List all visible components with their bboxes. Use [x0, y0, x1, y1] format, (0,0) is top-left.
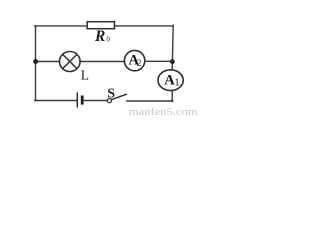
wire: bottom side, left corner to battery — [35, 100, 77, 102]
wire: top side, resistor to right corner — [115, 25, 174, 27]
svg-text:2: 2 — [137, 58, 142, 68]
svg-text:1: 1 — [174, 77, 180, 89]
wire: top side, corner to resistor — [35, 25, 87, 27]
ammeter A1 — [158, 70, 183, 91]
wire: battery to switch — [84, 100, 108, 102]
wire: middle branch, A2 to right wire — [145, 60, 173, 62]
wire: middle branch, lamp to ammeter A2 — [80, 61, 125, 63]
wire: middle branch, left wire to lamp — [36, 61, 60, 63]
wire: bottom side, switch to right corner — [127, 100, 173, 102]
resistor R0 — [87, 22, 114, 29]
wire: right side upper vertical — [172, 25, 173, 70]
lamp L cross stroke 2 — [63, 54, 77, 68]
battery: long plate — [76, 93, 78, 107]
wire: left side vertical — [35, 26, 37, 101]
lamp L — [60, 52, 81, 72]
node: junction on left wire — [33, 59, 38, 64]
svg-text:manfen5.com: manfen5.com — [129, 107, 198, 118]
svg-text:L: L — [81, 68, 89, 83]
battery: short thick plate — [81, 97, 84, 103]
svg-text:0: 0 — [106, 36, 110, 44]
wire: right side lower vertical — [171, 90, 173, 101]
svg-text:R: R — [94, 28, 105, 45]
node: junction of A2 branch and right wire — [170, 59, 175, 64]
switch S pivot circle — [107, 99, 111, 103]
svg-text:S: S — [107, 87, 115, 102]
lamp L cross stroke 1 — [63, 54, 77, 68]
switch S blade — [111, 94, 126, 99]
ammeter A2 — [124, 50, 144, 70]
